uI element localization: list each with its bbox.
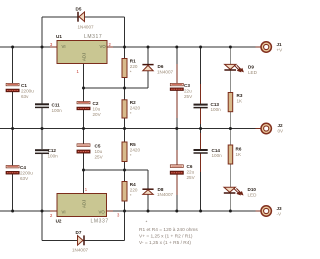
- svg-text:C11: C11: [52, 102, 61, 107]
- svg-text:LED: LED: [248, 193, 258, 198]
- svg-text:2420: 2420: [130, 105, 141, 110]
- svg-text:D9: D9: [248, 64, 254, 69]
- svg-text:63v: 63v: [21, 94, 29, 99]
- svg-text:+V: +V: [277, 47, 284, 52]
- svg-text:*: *: [146, 220, 148, 226]
- svg-text:D7: D7: [76, 230, 82, 235]
- svg-text:25V: 25V: [184, 94, 193, 99]
- svg-text:0V: 0V: [278, 128, 285, 133]
- svg-text:D6: D6: [158, 64, 164, 69]
- svg-text:V+ = 1,25 x (1 + R2 / R1): V+ = 1,25 x (1 + R2 / R1): [139, 233, 193, 239]
- svg-text:V- = 1,25 x (1 + R5 / R4): V- = 1,25 x (1 + R5 / R4): [139, 240, 191, 246]
- svg-text:R5: R5: [130, 142, 136, 147]
- svg-text:C3: C3: [184, 83, 190, 88]
- svg-text:100n: 100n: [211, 107, 222, 112]
- svg-text:U1: U1: [56, 34, 62, 39]
- svg-text:*: *: [130, 70, 132, 75]
- svg-text:D8: D8: [158, 187, 164, 192]
- svg-text:1N4007: 1N4007: [78, 25, 95, 30]
- svg-text:J1: J1: [277, 42, 283, 47]
- svg-text:D10: D10: [248, 187, 257, 192]
- svg-text:C12: C12: [48, 148, 57, 153]
- svg-text:63V: 63V: [20, 176, 29, 181]
- svg-text:J3: J3: [277, 206, 283, 211]
- svg-text:*: *: [130, 153, 132, 158]
- svg-text:VO: VO: [99, 209, 106, 214]
- svg-text:R1 et R4 = 120 à 240 ohms: R1 et R4 = 120 à 240 ohms: [139, 227, 198, 233]
- svg-text:VO: VO: [100, 44, 107, 49]
- svg-text:R1: R1: [130, 59, 136, 64]
- svg-text:C2: C2: [93, 101, 99, 106]
- svg-text:VI: VI: [62, 44, 66, 49]
- svg-text:25V: 25V: [95, 155, 104, 160]
- svg-text:LED: LED: [248, 70, 258, 75]
- svg-text:1K: 1K: [236, 152, 243, 157]
- svg-text:100n: 100n: [48, 154, 59, 159]
- svg-text:LM317: LM317: [84, 34, 102, 40]
- svg-text:100n: 100n: [52, 108, 63, 113]
- svg-text:20V: 20V: [93, 112, 102, 117]
- svg-text:1N4007: 1N4007: [157, 70, 174, 75]
- svg-text:220: 220: [130, 64, 138, 69]
- svg-text:R3: R3: [237, 93, 243, 98]
- svg-text:25V: 25V: [187, 175, 196, 180]
- svg-text:10u: 10u: [93, 107, 101, 112]
- svg-text:R4: R4: [130, 182, 136, 187]
- svg-text:2200u: 2200u: [21, 88, 34, 93]
- svg-text:22u: 22u: [184, 89, 192, 94]
- svg-text:C5: C5: [95, 144, 101, 149]
- svg-text:220: 220: [130, 188, 138, 193]
- svg-text:C1: C1: [21, 83, 27, 88]
- svg-text:C6: C6: [187, 164, 193, 169]
- svg-text:100n: 100n: [212, 153, 223, 158]
- svg-text:D5: D5: [76, 6, 82, 11]
- svg-text:*: *: [130, 111, 132, 116]
- svg-text:ADJ: ADJ: [82, 53, 87, 61]
- svg-text:*: *: [130, 193, 132, 198]
- svg-text:1N4007: 1N4007: [157, 192, 174, 197]
- svg-text:C4: C4: [20, 165, 26, 170]
- svg-text:J2: J2: [278, 123, 284, 128]
- svg-text:2420: 2420: [130, 148, 141, 153]
- svg-text:2200u: 2200u: [20, 171, 33, 176]
- svg-text:LM337: LM337: [91, 219, 109, 225]
- svg-text:1N4007: 1N4007: [72, 248, 89, 253]
- svg-text:R2: R2: [130, 100, 136, 105]
- svg-text:10u: 10u: [95, 149, 103, 154]
- svg-text:R6: R6: [236, 147, 242, 152]
- svg-text:VI: VI: [62, 209, 66, 214]
- svg-text:ADJ: ADJ: [82, 200, 87, 208]
- svg-text:U2: U2: [56, 219, 62, 224]
- svg-text:1K: 1K: [237, 99, 244, 104]
- svg-text:22u: 22u: [187, 170, 195, 175]
